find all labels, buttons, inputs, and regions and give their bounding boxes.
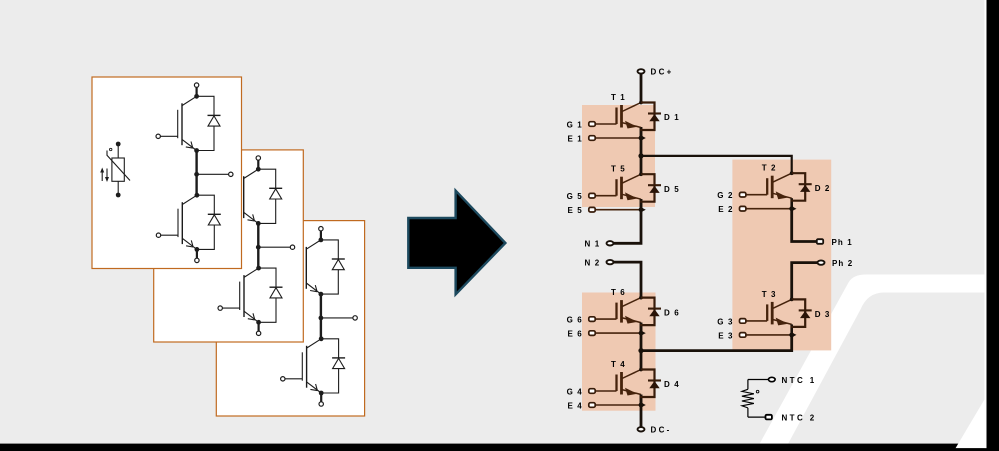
IGBT bottom box2 [218,266,261,325]
junction node at T1/T5 [638,153,643,158]
junction E1/bus [639,135,646,140]
svg-text:G 4: G 4 [567,388,583,397]
svg-text:D 5: D 5 [664,185,680,194]
transistor T6 [617,296,643,333]
svg-text:E 5: E 5 [567,206,582,215]
svg-text:E 6: E 6 [567,330,582,339]
right black bar [987,0,999,451]
bottom-right corner fill [955,448,999,451]
decorative corner wedge [956,396,987,448]
diode D3 [791,299,812,327]
diode D2 [791,173,812,201]
wire gate G4 [595,390,617,392]
svg-text:DC-: DC- [651,426,672,435]
svg-text:DC+: DC+ [651,68,674,77]
svg-text:T 3: T 3 [762,290,777,299]
svg-text:D 3: D 3 [815,310,831,319]
terminal Ph1 [817,239,823,244]
terminal G2 [740,192,746,197]
wire T6 emitter to T4 collector [640,323,643,370]
svg-text:E 1: E 1 [567,135,582,144]
transistor T2 [767,171,793,208]
terminal E2 [740,206,746,211]
svg-text:D 1: D 1 [664,113,680,122]
right white separator [984,0,986,448]
transistor T1 [617,101,643,138]
svg-text:G 6: G 6 [567,316,583,325]
wire T3 emitter to T6/T4 node [641,335,792,351]
svg-text:G 2: G 2 [717,191,733,200]
svg-text:G 3: G 3 [717,317,733,326]
wire T5 emitter to N1 [612,199,641,243]
terminal G1 [589,122,595,127]
wire emitter E4 [595,404,639,406]
terminal Ph2 [818,260,825,264]
diode of bottom box2 [259,268,283,322]
highlight region T1/T5 [582,105,655,207]
terminal DC- [638,427,645,431]
IGBT bottom box3 [281,336,324,395]
svg-text:D 4: D 4 [664,380,680,389]
bottom black bar [0,444,987,451]
NTC resistor [742,380,759,418]
diode of bottom box3 [321,339,345,393]
svg-text:Ph 2: Ph 2 [832,259,853,268]
top terminal box2 [256,156,260,169]
diode D1 [640,103,661,131]
svg-text:D 2: D 2 [815,184,831,193]
svg-text:N 2: N 2 [585,259,601,268]
wire gate G2 [746,194,768,196]
bottom terminal box1 [195,249,199,262]
wire T2 emitter to Ph1 [792,209,817,242]
module outline box 1 [92,77,242,269]
wire mid bus box2 [257,223,259,268]
terminal G3 [740,319,746,324]
diode of top box2 [258,169,282,223]
diode D6 [640,298,661,326]
wire emitter E1 [595,137,639,139]
output node box3 [319,316,358,321]
output node box2 [256,245,295,250]
svg-text:G 5: G 5 [567,192,583,201]
svg-text:NTC 2: NTC 2 [782,414,817,423]
wire NTC1 [748,379,768,381]
transistor T5 [617,172,643,209]
svg-text:G 1: G 1 [567,121,583,130]
wire Ph2 to T3 collector [792,263,818,300]
thermistor RT [107,142,130,198]
wire emitter E2 [746,208,790,210]
svg-text:E 4: E 4 [567,402,582,411]
terminal E4 [589,403,595,408]
highlight region T6/T4 [582,293,656,411]
svg-text:D 6: D 6 [664,308,680,317]
wire mid bus box3 [320,294,322,339]
terminal E5 [589,207,595,212]
thermistor arrows [100,168,109,183]
highlight region T2/T3 [732,160,831,351]
svg-text:T 4: T 4 [611,360,626,369]
junction E5/bus [639,207,646,212]
IGBT top box1 [156,94,199,153]
svg-text:NTC 1: NTC 1 [782,376,817,385]
diode of bottom box1 [197,195,221,249]
wire gate G6 [595,318,617,320]
wire T1 emitter to T5 collector [640,127,643,174]
wire gate G3 [746,320,768,322]
terminal E3 [740,333,746,338]
svg-text:N 1: N 1 [585,240,601,249]
IGBT top box3 [280,238,323,297]
module outline box 2 [154,150,304,342]
terminal NTC1 [769,377,776,381]
wire gate G5 [595,195,617,197]
transistor T4 [617,368,643,405]
svg-text:E 2: E 2 [718,205,733,214]
top terminal box1 [194,83,198,96]
wire mid bus box1 [195,151,197,196]
terminal N1 [607,241,614,245]
transistor T3 [767,298,793,335]
terminal NTC2 [766,415,772,420]
big transition arrow [408,191,505,295]
junction E6/bus [639,330,646,335]
bottom terminal box3 [319,393,323,406]
terminal DC+ [638,69,645,73]
terminal E6 [589,331,595,336]
terminal G6 [589,317,595,322]
diode D4 [640,370,661,398]
wire N2 to T6 collector [612,262,641,298]
diode of top box1 [197,96,221,150]
bottom terminal box2 [256,322,260,335]
svg-text:T 5: T 5 [611,165,626,174]
svg-text:T 2: T 2 [762,164,777,173]
terminal N2 [607,260,614,264]
wire NTC2 [748,416,766,418]
svg-text:T 1: T 1 [611,93,626,102]
wire emitter E5 [595,209,639,211]
terminal G4 [589,389,595,394]
diode D5 [640,174,661,202]
svg-text:T 6: T 6 [611,288,626,297]
wire T1/T5 node to T2 collector [641,156,792,173]
module outline box 3 [216,221,364,416]
svg-text:Ph 1: Ph 1 [832,238,853,247]
junction node at T6/T4 [638,348,643,353]
wire emitter E3 [746,334,790,336]
diode of top box3 [321,240,345,294]
decorative swoosh band [756,275,987,451]
svg-text:E 3: E 3 [718,331,733,340]
IGBT top box2 [218,167,261,226]
top terminal box3 [319,227,323,240]
IGBT bottom box1 [156,193,199,252]
junction E3/bus [789,332,796,337]
junction E4/bus [639,402,646,407]
wire gate G1 [595,123,617,125]
junction E2/bus [789,206,796,211]
wire T4 emitter to DC- [640,395,643,427]
terminal E1 [589,136,595,141]
output node box1 [194,172,233,177]
terminal G5 [589,193,595,198]
wire emitter E6 [595,332,639,334]
wire DC+ feed [640,74,643,103]
